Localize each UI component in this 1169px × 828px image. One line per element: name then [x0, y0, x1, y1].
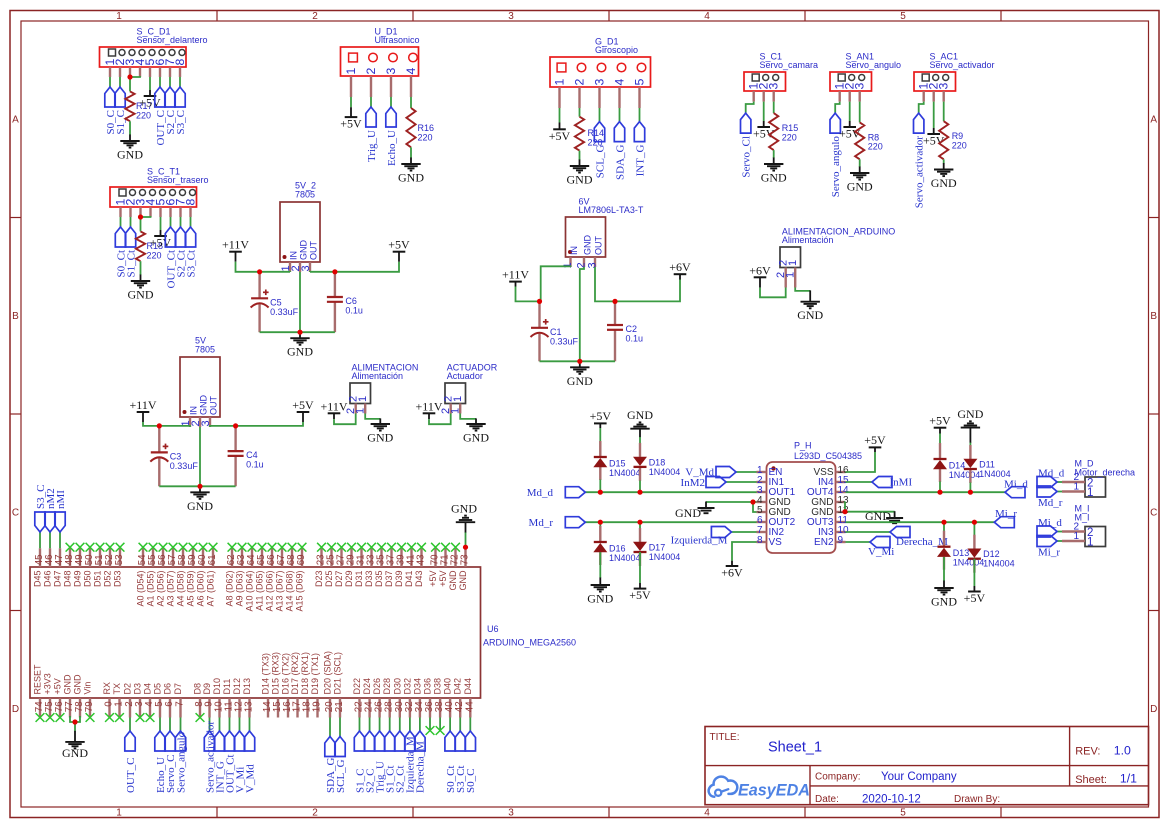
- ground at ACTUADOR: [463, 418, 489, 444]
- wire: [639, 108, 641, 122]
- svg-text:D42: D42: [453, 678, 463, 695]
- svg-text:+5V: +5V: [929, 413, 951, 427]
- no-connect: [426, 726, 435, 735]
- svg-text:220: 220: [418, 132, 433, 142]
- svg-text:+5V: +5V: [53, 678, 63, 694]
- svg-text:GND: GND: [797, 308, 823, 322]
- frame column numbers: [116, 11, 906, 819]
- wire: [939, 482, 941, 493]
- svg-text:GND: GND: [567, 173, 593, 187]
- 5V pin OUT: [209, 417, 211, 427]
- U6 pin 25 (D25): [324, 548, 337, 587]
- U6 pin 29 (D29): [344, 548, 357, 587]
- svg-text:Servo_activador: Servo_activador: [930, 60, 995, 70]
- svg-text:S0_C: S0_C: [465, 769, 477, 793]
- ground under R14: [567, 160, 593, 187]
- G_D1 pin stub: [638, 87, 640, 108]
- svg-text:6: 6: [164, 701, 175, 707]
- net flag V_Mi: [868, 537, 894, 559]
- U6 pin 40 (D40): [443, 678, 456, 718]
- no-connect: [417, 543, 426, 552]
- svg-text:OUT: OUT: [308, 241, 318, 261]
- U6 pin 8 (D8): [193, 683, 206, 718]
- svg-text:D14: D14: [949, 461, 966, 471]
- svg-text:Ultrasonico: Ultrasonico: [375, 35, 420, 45]
- S_AC1 pin stub: [933, 91, 935, 102]
- svg-text:1.0: 1.0: [1114, 743, 1131, 757]
- svg-text:D45: D45: [33, 571, 43, 588]
- svg-text:A6 (D60): A6 (D60): [196, 570, 206, 606]
- voltage regulator 5V (7805): [180, 336, 220, 417]
- svg-text:A8 (D62): A8 (D62): [225, 570, 235, 606]
- U6 pin 75 (+3V3): [43, 673, 56, 717]
- S_AC1 pin numbers: [917, 83, 951, 90]
- net flag Servo_angulo: [175, 731, 187, 793]
- wire: [595, 267, 680, 301]
- svg-text:Echo_U: Echo_U: [386, 130, 398, 166]
- svg-text:220: 220: [868, 142, 883, 152]
- svg-text:GND: GND: [582, 235, 592, 256]
- S_C_T1 pin stub: [169, 207, 171, 217]
- net flag SDA_G: [325, 737, 337, 794]
- ground under U6 pins 77-78: [62, 731, 88, 760]
- svg-text:C3: C3: [170, 452, 182, 462]
- svg-text:D18: D18: [649, 457, 666, 467]
- svg-text:0.1u: 0.1u: [246, 460, 264, 470]
- svg-text:3: 3: [586, 262, 598, 268]
- svg-text:+6V: +6V: [721, 566, 743, 580]
- svg-text:1N4004: 1N4004: [609, 468, 641, 478]
- net flag S2_Ct: [395, 731, 407, 793]
- svg-text:S3_C: S3_C: [175, 110, 187, 134]
- wire: [210, 422, 303, 427]
- 5V_2 pin IN: [289, 262, 291, 272]
- svg-text:1: 1: [344, 68, 358, 75]
- svg-text:Vin: Vin: [83, 682, 93, 695]
- U6 pin 18 (D18 (RX1)): [300, 652, 313, 718]
- P_H pin 6 (OUT2): [757, 515, 796, 528]
- resistor R16 220: [406, 108, 434, 147]
- net flag S2_Ct: [175, 227, 187, 278]
- wire: [229, 718, 231, 732]
- net flag InMI: [872, 477, 912, 489]
- svg-text:D13: D13: [242, 678, 252, 695]
- wire: [859, 159, 861, 167]
- net flag S1_C: [354, 731, 366, 793]
- U6 pin 0 (RX): [102, 682, 115, 718]
- svg-text:Sensor_delantero: Sensor_delantero: [137, 35, 208, 45]
- svg-text:Sheet:: Sheet:: [1075, 774, 1107, 786]
- wire: [169, 77, 171, 87]
- P_H pin 9 (EN2): [814, 535, 845, 548]
- wire: [141, 216, 151, 217]
- wire: [846, 481, 873, 483]
- U6 pin 41 (D41): [404, 548, 417, 587]
- wire: [746, 102, 754, 114]
- svg-text:Izquierda_M: Izquierda_M: [671, 535, 728, 547]
- svg-text:IN: IN: [569, 246, 579, 255]
- net flag S0_C: [105, 87, 117, 134]
- svg-text:D6: D6: [163, 683, 173, 695]
- ic U6 (ARDUINO_MEGA2560): [30, 567, 576, 698]
- U6 pin 1 (TX): [112, 683, 125, 718]
- svg-text:OUT: OUT: [208, 396, 218, 416]
- +5V flag at S_C1 pin2: [753, 121, 775, 141]
- svg-text:D50: D50: [83, 571, 93, 588]
- wire: [379, 718, 381, 732]
- svg-text:SCL_G: SCL_G: [594, 145, 606, 179]
- svg-text:GND: GND: [627, 408, 653, 422]
- net flag Mi_r: [994, 508, 1017, 528]
- svg-text:D17: D17: [649, 543, 666, 553]
- wire: [410, 147, 412, 158]
- no-connect: [115, 713, 124, 722]
- ground under R9: [931, 163, 957, 190]
- svg-text:U6: U6: [487, 624, 499, 634]
- svg-text:GND: GND: [458, 570, 468, 591]
- svg-text:A13 (D67): A13 (D67): [275, 571, 285, 612]
- U6 pin 58 (A4 (D58)): [176, 548, 189, 606]
- wire: [973, 559, 975, 586]
- no-connect: [278, 543, 287, 552]
- P_H pin 15 (IN4): [818, 475, 849, 488]
- wire: [350, 97, 352, 107]
- U6 pin 36 (D36): [423, 678, 436, 718]
- no-connect: [357, 543, 366, 552]
- output flag at 5V_2: [388, 238, 410, 252]
- svg-text:D39: D39: [394, 571, 404, 588]
- svg-text:GND: GND: [451, 501, 477, 515]
- svg-text:D51: D51: [93, 571, 103, 588]
- U6 pin 35 (D35): [374, 548, 387, 587]
- wire: [109, 77, 111, 87]
- junction pins 4-5: [750, 499, 755, 504]
- net flag nM2: [45, 488, 57, 532]
- connector S_C1 (Servo_camara): [744, 72, 786, 91]
- svg-text:D16 (TX2): D16 (TX2): [281, 653, 291, 695]
- svg-text:C2: C2: [626, 324, 638, 334]
- net flag S2_C: [165, 87, 177, 134]
- wire: [846, 511, 895, 513]
- net flag Mi_d: [1037, 517, 1062, 537]
- ground at P_H pins 4-5: [675, 502, 715, 521]
- U6 pin 43 (D43): [414, 548, 427, 587]
- P_H pin 13 (GND): [811, 495, 849, 508]
- svg-text:73: 73: [460, 554, 471, 565]
- no-connect: [116, 543, 125, 552]
- P_H pin 1 (EN): [757, 465, 783, 478]
- no-connect: [248, 543, 257, 552]
- svg-text:3: 3: [853, 83, 867, 90]
- diode D12 1N4004: [967, 535, 1014, 573]
- svg-text:+5V: +5V: [864, 433, 886, 447]
- svg-text:OUT: OUT: [593, 236, 603, 256]
- svg-text:D21 (SCL): D21 (SCL): [333, 652, 343, 695]
- junction D14/bus: [937, 490, 942, 495]
- wire: [419, 718, 421, 732]
- svg-text:D44: D44: [463, 678, 473, 695]
- svg-text:69: 69: [296, 554, 307, 565]
- wire: [59, 532, 61, 548]
- wire: [39, 532, 41, 548]
- svg-text:2: 2: [573, 79, 587, 86]
- wire: [943, 557, 945, 581]
- svg-text:S1_C: S1_C: [115, 110, 127, 134]
- wire: [219, 718, 221, 732]
- diode D18 1N4004: [633, 443, 680, 481]
- svg-text:Alimentación: Alimentación: [352, 371, 404, 381]
- svg-text:5: 5: [900, 11, 906, 22]
- svg-text:+5V: +5V: [438, 571, 448, 587]
- svg-text:1N4004: 1N4004: [949, 470, 981, 480]
- S_AC1 pin stub: [943, 91, 945, 102]
- no-connect: [149, 543, 158, 552]
- ground flag above D11: [957, 407, 983, 443]
- wire: [599, 522, 601, 527]
- 6V pin OUT: [594, 257, 596, 267]
- svg-text:GND: GND: [62, 746, 88, 760]
- junction ground 5V: [197, 484, 202, 489]
- U6 pin 46 (D46): [43, 548, 56, 587]
- U6 pin 55 (A1 (D55)): [146, 548, 159, 606]
- svg-text:EasyEDA: EasyEDA: [738, 781, 810, 799]
- svg-text:D30: D30: [392, 678, 402, 695]
- svg-text:1: 1: [114, 701, 125, 706]
- S_C_D1 pin numbers: [103, 59, 187, 66]
- U6 pin 30 (D30): [392, 678, 405, 718]
- svg-text:INT_G: INT_G: [634, 145, 646, 177]
- net flag Servo_angulo: [830, 113, 842, 197]
- net flag SCL_G: [594, 122, 606, 179]
- ground at ALIMENTACION_ARDUINO: [797, 290, 823, 322]
- S_C_T1 pin stub: [129, 207, 131, 217]
- svg-text:SDA_G: SDA_G: [614, 145, 626, 181]
- svg-text:Your Company: Your Company: [881, 771, 957, 783]
- net flag S3_C: [35, 485, 47, 532]
- svg-text:Servo_Cl: Servo_Cl: [741, 136, 753, 178]
- svg-text:+6V: +6V: [669, 260, 691, 274]
- svg-text:1: 1: [1073, 531, 1079, 542]
- S_AN1 pin stub: [839, 91, 841, 102]
- no-connect: [347, 543, 356, 552]
- svg-text:C: C: [12, 508, 19, 519]
- svg-text:D10: D10: [212, 678, 222, 695]
- 5V_2 pin OUT: [309, 262, 311, 272]
- wire: [760, 288, 786, 298]
- U6 pin 23 (D23): [314, 548, 327, 587]
- no-connect: [86, 713, 95, 722]
- wire: [706, 501, 757, 503]
- resistor R17 220: [125, 91, 152, 121]
- svg-text:13: 13: [244, 701, 255, 712]
- +5V flag at U_D1 pin1: [340, 107, 362, 130]
- svg-text:3: 3: [384, 68, 398, 75]
- svg-text:OUT_C: OUT_C: [125, 758, 137, 793]
- +5V flag under D12: [964, 586, 986, 605]
- wire: [159, 485, 235, 487]
- U6 pin 56 (A2 (D56)): [156, 548, 169, 606]
- U_D1 pin numbers: [344, 68, 418, 75]
- junction C6/output: [332, 269, 337, 274]
- no-connect: [199, 543, 208, 552]
- +5V flag above D15: [590, 409, 612, 424]
- no-connect: [139, 543, 148, 552]
- svg-text:D: D: [12, 704, 19, 715]
- svg-text:D43: D43: [414, 571, 424, 588]
- U6 pin 22 (D22): [352, 678, 365, 718]
- junction at pin 73: [463, 545, 468, 550]
- net flag Echo_U: [155, 731, 167, 793]
- G_D1 pin stub: [598, 87, 600, 108]
- U6 pin 32 (D32): [402, 678, 415, 718]
- S_AN1 pin numbers: [833, 83, 867, 90]
- svg-text:43: 43: [416, 554, 427, 565]
- 5V_2 pin GND: [299, 262, 301, 272]
- M_I pin stubs: [1062, 532, 1085, 542]
- svg-text:RX: RX: [102, 682, 112, 695]
- ground at P_H pins 13-12: [865, 509, 903, 523]
- svg-text:GND: GND: [931, 595, 957, 609]
- no-connect: [317, 543, 326, 552]
- resistor R18 220: [136, 231, 163, 261]
- no-connect: [397, 543, 406, 552]
- svg-text:A5 (D59): A5 (D59): [186, 570, 196, 606]
- U6 pin 12 (D12): [232, 678, 245, 718]
- U6 pin 19 (D19 (TX1)): [310, 653, 323, 718]
- svg-text:GND: GND: [73, 674, 83, 695]
- wire: [639, 522, 641, 528]
- svg-text:GND: GND: [63, 674, 73, 695]
- M_D pin stubs: [1062, 482, 1085, 492]
- svg-text:D32: D32: [402, 678, 412, 695]
- svg-text:Servo_camara: Servo_camara: [760, 60, 819, 70]
- junction pins 13-12: [842, 509, 847, 514]
- wire: [170, 217, 172, 227]
- capacitor C3 0.33uF: [150, 426, 198, 486]
- svg-text:Motor_derecha: Motor_derecha: [1075, 468, 1136, 478]
- svg-text:InMI: InMI: [890, 477, 913, 489]
- wire: [365, 414, 380, 419]
- svg-text:D7: D7: [173, 683, 183, 695]
- svg-text:IN: IN: [188, 406, 198, 415]
- S_AN1 pin stub: [859, 91, 861, 102]
- S_C1 pin stub: [773, 91, 775, 102]
- U6 pin 60 (A6 (D60)): [196, 548, 209, 606]
- U6 pin 6 (D6): [163, 683, 176, 718]
- net flag Md_d: [527, 487, 586, 499]
- svg-text:1N4004: 1N4004: [979, 469, 1011, 479]
- svg-text:GND: GND: [128, 288, 154, 302]
- svg-text:Derecha_M: Derecha_M: [415, 741, 427, 793]
- P_H pin 12 (GND): [811, 505, 849, 518]
- U6 pin 48 (D48): [63, 548, 76, 587]
- svg-text:+5V: +5V: [590, 409, 612, 423]
- svg-text:A12 (D66): A12 (D66): [265, 571, 275, 612]
- ALIMENTACION_ARDUINO pin numbers: [775, 272, 797, 278]
- +5V flag at P_H VSS: [864, 433, 886, 447]
- no-connect: [105, 713, 114, 722]
- no-connect: [179, 543, 188, 552]
- net flag Servo_Cl: [741, 113, 753, 178]
- svg-text:D2: D2: [123, 683, 133, 695]
- wire: [639, 552, 641, 583]
- svg-text:7: 7: [175, 701, 186, 706]
- G_D1 pin stub: [578, 87, 580, 108]
- svg-text:D12: D12: [232, 678, 242, 695]
- svg-text:ARDUINO_MEGA2560: ARDUINO_MEGA2560: [483, 638, 576, 648]
- net flag S1_Ct: [385, 731, 397, 793]
- U6 pin 37 (D37): [384, 548, 397, 587]
- U6 pin 78 (GND): [73, 674, 86, 718]
- net flag InM2: [681, 477, 726, 490]
- ALIMENTACION pin names: [348, 396, 370, 402]
- svg-text:D22: D22: [352, 678, 362, 695]
- net flag S0_C: [465, 731, 477, 793]
- wire: [835, 102, 840, 114]
- +5V flag at S_C_D1 pin5: [139, 90, 161, 110]
- svg-text:D11: D11: [222, 679, 232, 695]
- junction D18/bus: [637, 490, 642, 495]
- no-connect: [228, 543, 237, 552]
- U6 pin 67 (A13 (D67)): [275, 548, 288, 611]
- voltage regulator 5V_2 (7805): [280, 181, 320, 262]
- no-connect: [146, 713, 155, 722]
- no-connect: [189, 543, 198, 552]
- svg-text:EN2: EN2: [814, 537, 834, 548]
- svg-text:79: 79: [84, 701, 95, 712]
- U6 pin 52 (D52): [103, 548, 116, 587]
- wire: [465, 532, 467, 547]
- svg-text:D53: D53: [113, 571, 123, 588]
- wire: [1057, 531, 1062, 533]
- svg-text:GND: GND: [931, 176, 957, 190]
- U6 pin 45 (D45): [33, 548, 46, 587]
- net flag V_Mi: [234, 731, 246, 793]
- S_C_D1 pin stub: [179, 67, 181, 77]
- wire: [846, 491, 1006, 493]
- P_H pin 5 (GND): [757, 505, 791, 518]
- svg-text:LM7806L-TA3-T: LM7806L-TA3-T: [579, 205, 644, 215]
- +6V flag at ALIMENTACION_ARDUINO: [749, 263, 771, 277]
- svg-text:GND: GND: [198, 395, 208, 416]
- svg-text:GND: GND: [567, 374, 593, 388]
- U6 pin 42 (D42): [453, 678, 466, 718]
- net flag V_Md: [244, 731, 256, 793]
- wire: [249, 718, 251, 732]
- svg-text:B: B: [1150, 311, 1157, 322]
- net flag Echo_U: [386, 107, 398, 166]
- svg-text:+3V3: +3V3: [43, 673, 53, 694]
- svg-text:+5V: +5V: [629, 588, 651, 602]
- svg-text:4: 4: [613, 79, 627, 86]
- U6 pin 49 (D49): [73, 548, 86, 587]
- ground under R15: [761, 158, 787, 185]
- P_H pin 8 (VS): [757, 535, 783, 548]
- connector ACTUADOR (Actuador): [445, 362, 498, 403]
- svg-text:GND: GND: [367, 431, 393, 445]
- no-connect: [106, 543, 115, 552]
- U6 pin 34 (D34): [412, 678, 425, 718]
- no-connect: [46, 713, 55, 722]
- wire: [449, 718, 451, 732]
- svg-text:53: 53: [114, 554, 125, 565]
- net flag OUT_C: [155, 87, 167, 145]
- U6 pin 50 (D50): [83, 548, 96, 587]
- U6 pin 33 (D33): [364, 548, 377, 587]
- net flag Servo_activador: [204, 721, 216, 793]
- U6 pin 51 (D51): [93, 548, 106, 587]
- svg-text:5: 5: [900, 807, 906, 818]
